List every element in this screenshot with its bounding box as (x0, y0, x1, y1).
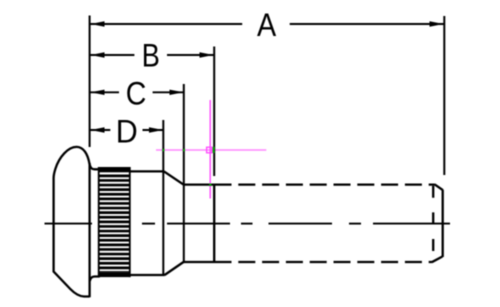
shank top solid segment (183, 183, 214, 185)
svg-text:A: A (257, 7, 276, 43)
shank bottom solid segment (183, 261, 214, 263)
arrow A left (91, 21, 105, 26)
arrow D right (149, 127, 163, 132)
tip chamfer bottom slant (432, 257, 443, 263)
dimension line B (91, 54, 135, 56)
green crossing dot D line (162, 149, 164, 151)
tip thread chamfer dashed line (432, 186, 434, 252)
magenta crosshair horizontal (156, 149, 266, 151)
knurl bottom bar (98, 272, 130, 277)
svg-text:B: B (142, 38, 160, 74)
green snap mark on B line (213, 147, 215, 153)
extension line D (162, 120, 164, 275)
cone top slant (164, 171, 184, 184)
arrow C left (91, 90, 105, 95)
extension line B (213, 47, 215, 177)
tip face (442, 190, 444, 257)
centerline short dash 2 (241, 223, 253, 225)
neck top line with fillet (90, 165, 100, 170)
bolt head profile (54, 147, 90, 297)
arrow B left (91, 52, 105, 57)
svg-text:C: C (126, 76, 147, 112)
cone bottom slant (165, 262, 184, 275)
green crossing dash on shank top (209, 184, 211, 186)
extension line A right (443, 16, 445, 175)
knurl serration stripes (98, 175, 130, 273)
cylinder top line (129, 170, 164, 172)
dimension line D (91, 129, 111, 131)
thread start line (213, 185, 215, 262)
knurl left edge (98, 167, 100, 277)
neck bottom line with fillet (90, 277, 100, 282)
svg-text:D: D (116, 113, 138, 149)
arrow C right (170, 90, 184, 95)
centerline short dash 3 (349, 223, 361, 225)
green crossing dot C line (183, 149, 185, 151)
magenta crosshair vertical (209, 100, 211, 199)
extension line C (183, 84, 185, 262)
extension line datum (head face) (89, 16, 91, 148)
dimension line A (91, 23, 243, 25)
centerline long dash 1 (167, 223, 230, 225)
cylinder bottom line (129, 274, 165, 276)
tip chamfer top slant (435, 184, 443, 190)
knurl right edge (129, 167, 131, 277)
knurl top bar (98, 167, 130, 172)
centerline long dash 2 (269, 223, 333, 225)
arrow B right (200, 52, 214, 57)
dimension line C (91, 91, 120, 93)
head face line (88, 163, 90, 297)
centerline segment through head (45, 223, 93, 225)
shank top threaded dashes (215, 183, 435, 185)
centerline long dash 3 through tip (373, 223, 450, 225)
shank bottom threaded dashes (215, 261, 433, 263)
arrow D left (91, 127, 105, 132)
magenta snap square (207, 147, 212, 153)
centerline short dash 1 (142, 223, 155, 225)
arrow A right (430, 21, 444, 26)
